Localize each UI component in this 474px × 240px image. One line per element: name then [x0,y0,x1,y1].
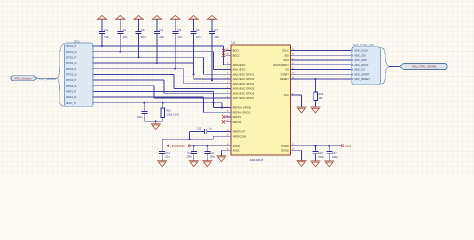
wire CS to harness [296,69,352,71]
svg-text:RTD1_P: RTD1_P [66,44,76,48]
harness entry REF1_P [66,90,94,94]
pin RESET right [280,77,296,81]
svg-text:10n: 10n [104,35,109,39]
harness entry RTD3_N [66,73,94,77]
power symbol above C6 [188,16,198,32]
pin SCLK right [282,49,296,53]
svg-text:9: 9 [227,106,228,108]
wire RTD1_N to AIN1 [94,52,231,70]
pin CLK right [284,93,296,97]
pin REFIN+ GPIO0 left [226,106,252,110]
U1 part number AD4130-8 [250,158,264,162]
svg-text:18: 18 [292,77,294,79]
harness entry RTD4_N [66,84,94,88]
capacitor C17 100p [326,146,338,161]
harness entry RTD1_N [66,50,94,54]
harness entry RTD1_P [66,44,94,48]
junction on RTD row 5 [174,68,176,70]
capacitor C7 10n [209,28,219,80]
harness entry ADX_SCLK [351,49,368,53]
svg-text:BDC2: BDC2 [233,53,241,57]
svg-text:BDC1: BDC1 [233,49,241,53]
wire SCLK to harness [296,50,352,52]
wire SDI to harness [296,54,352,56]
capacitor C16 100n [313,146,325,161]
ground CLK [297,107,307,113]
svg-text:16: 16 [226,54,228,56]
harness brace left [58,44,65,107]
junction on RTD row 4 [156,62,158,64]
pin CS right [285,68,296,72]
svg-text:C4: C4 [159,28,163,32]
svg-text:ADX_RESET: ADX_RESET [354,77,370,81]
resistor R16 1k [314,79,324,107]
port RTD_Sensors [11,76,37,81]
harness entry RTD4_P [66,78,94,82]
svg-text:C16: C16 [318,152,323,155]
svg-text:AIN5 IEXC GPIO5: AIN5 IEXC GPIO5 [233,87,255,91]
svg-text:RTD2_N: RTD2_N [66,61,76,65]
harness entry RTD2_P [66,56,94,60]
pin AIN3 IEXC GPIO3 left [226,77,255,81]
svg-text:ADX_START: ADX_START [354,72,370,76]
svg-text:C3: C3 [141,28,145,32]
no-connect BDC1 [222,49,225,52]
pin AIN7 IEXC GPIO7 left [226,96,255,100]
capacitor C15 1u [190,127,231,134]
svg-text:+3V3: +3V3 [344,144,351,148]
svg-text:ADX_SDI: ADX_SDI [354,53,366,57]
wire RTD2_P to AIN2 [94,57,231,74]
capacitor C2 10n [117,28,127,52]
svg-text:C15: C15 [197,127,202,130]
wire REF1_P to REFIN+ [94,91,231,107]
ground DGND [297,161,307,167]
svg-text:REFIN+ GPIO0: REFIN+ GPIO0 [233,106,252,110]
svg-text:AVSS: AVSS [233,148,240,152]
wire DVDD rail [291,145,342,147]
pin DGND right [281,148,296,152]
svg-text:2.00k 0.1%: 2.00k 0.1% [166,114,179,117]
svg-text:100n: 100n [186,156,192,159]
power port +3V3 [341,144,351,148]
svg-text:C11: C11 [210,152,215,155]
capacitor C12 100n [186,146,196,161]
svg-text:REF1_P: REF1_P [66,90,76,94]
svg-text:RTD3_N: RTD3_N [66,73,76,77]
net label RTD_Sensors [39,77,56,81]
junction on RTD row 3 [138,56,140,58]
svg-text:RTD4_N: RTD4_N [66,84,76,88]
ground R16 [311,107,321,113]
pin BDC1 left [226,49,241,53]
harness title ADX_CTRL_SIG [353,43,374,47]
U1 designator [232,40,236,44]
harness title RTD [74,39,80,43]
wire RTD1_P to AIN0 [94,46,231,65]
pin VREFCOM left [226,134,246,138]
svg-text:100n: 100n [210,156,216,159]
no-connect REFN1 [222,120,225,123]
junction on RTD row 6 [193,73,195,75]
ground C12 [189,161,199,167]
svg-text:REF1_N: REF1_N [66,95,76,99]
harness entry RTD3_P [66,67,94,71]
wire RTD4_P to AIN6 [94,80,231,93]
svg-text:REFN1: REFN1 [233,120,242,124]
pin REFN1 left [226,120,242,124]
svg-text:SDI: SDI [284,53,289,57]
svg-text:11: 11 [227,115,229,117]
svg-text:4: 4 [227,77,228,79]
pin DVDD right [281,144,296,148]
wire port to harness [37,77,58,79]
wire CLK [291,95,302,107]
port ADx_CTRL_SIGNAL [400,63,448,69]
svg-text:START: START [280,72,289,76]
svg-text:AIN6 IEXC GPIO6: AIN6 IEXC GPIO6 [233,91,255,95]
svg-text:DVDD: DVDD [281,144,289,148]
harness entry ADX_START [351,72,370,76]
svg-text:C12: C12 [187,152,192,155]
svg-text:10n: 10n [178,35,183,39]
svg-text:C1: C1 [104,28,108,32]
svg-text:23: 23 [292,54,294,56]
pin START right [280,72,296,76]
ground C11 [202,161,212,167]
svg-text:100n: 100n [318,156,324,159]
svg-text:CS: CS [285,68,289,72]
harness entry ADX_SDO [351,58,367,62]
svg-text:ADX_DOUT: ADX_DOUT [354,63,369,67]
svg-text:C17: C17 [332,152,337,155]
svg-text:RTD3_P: RTD3_P [66,67,76,71]
svg-text:1: 1 [227,63,228,65]
pin AIN4 IEXC GPIO4 left [226,82,255,86]
power symbol above C3 [133,16,143,32]
svg-text:15: 15 [226,49,228,51]
svg-text:SDO: SDO [283,58,289,62]
power symbol above C1 [97,16,107,32]
svg-text:C6: C6 [196,28,200,32]
capacitor C11 100n [204,146,215,161]
pin AVSS left [226,148,240,152]
svg-text:6: 6 [227,87,228,89]
pin AIN1 IEXC left [226,68,246,72]
pin AVDD left [226,144,240,148]
pin AIN2 IEXC GPIO2 left [226,72,255,76]
svg-text:AIN2 IEXC GPIO2: AIN2 IEXC GPIO2 [233,72,255,76]
harness entry RTD2_N [66,61,94,65]
svg-text:RTD_Sensors: RTD_Sensors [39,77,56,81]
svg-text:U1: U1 [232,40,236,44]
svg-text:R16: R16 [318,93,323,96]
svg-text:24: 24 [292,49,294,51]
svg-text:100p: 100p [332,156,338,159]
svg-text:+3V3AVDD: +3V3AVDD [170,144,185,148]
ground ref [151,124,161,130]
capacitor C8 100n [137,102,148,122]
resistor R13 2.00k 0.1% [161,102,180,122]
svg-text:C5: C5 [178,28,182,32]
pin AIN0 IEXC left [226,63,246,67]
svg-text:DOUT/DRDY: DOUT/DRDY [273,63,289,67]
pin REFP1 left [226,115,242,119]
svg-text:10: 10 [226,111,228,113]
no-connect BDC2 [222,54,225,57]
svg-text:5: 5 [227,82,228,84]
junction on RTD row 2 [119,51,121,53]
power symbol above C7 [207,16,217,32]
wire VREFCOM [162,136,231,139]
svg-text:C7: C7 [214,28,218,32]
svg-text:10u: 10u [165,156,170,159]
svg-text:10n: 10n [141,35,146,39]
power port +3V3AVDD [166,144,190,148]
capacitor C3 10n [136,28,146,57]
svg-text:ADX_SDO: ADX_SDO [354,58,367,62]
svg-text:ADX_SCLK: ADX_SCLK [354,49,368,53]
harness entry ADX_SDI [351,53,366,57]
pin AIN5 IEXC GPIO5 left [226,87,255,91]
svg-text:AIN1 IEXC: AIN1 IEXC [233,68,246,72]
svg-text:AD4130-8: AD4130-8 [250,158,264,162]
ground C16 [311,161,321,167]
svg-text:ADX_CTRL_SIG: ADX_CTRL_SIG [353,43,374,47]
svg-text:AIN3 IEXC GPIO3: AIN3 IEXC GPIO3 [233,77,255,81]
pin SDO right [283,58,296,62]
svg-text:ADx_CTRL_SIGNAL: ADx_CTRL_SIGNAL [412,65,437,69]
svg-text:RTD_Sensors: RTD_Sensors [15,76,32,80]
power symbol above C2 [115,16,125,32]
svg-text:19: 19 [292,73,294,75]
svg-text:8: 8 [227,96,228,98]
svg-text:CLK: CLK [284,93,289,97]
wire VREFOUT drop [189,132,191,141]
pin VREFOUT left [226,130,246,134]
svg-text:10n: 10n [159,35,164,39]
svg-text:R13: R13 [166,110,171,113]
wire IEXC_C ref node [94,103,223,109]
pin AIN6 IEXC GPIO6 left [226,91,255,95]
svg-text:2: 2 [227,68,228,70]
pin SDI right [284,53,296,57]
no-connect REFP1 [222,115,225,118]
svg-text:RTD2_P: RTD2_P [66,56,76,60]
svg-text:VREFOUT: VREFOUT [233,130,246,134]
harness entry REF1_N [66,95,94,99]
svg-text:12: 12 [226,120,228,122]
pin DOUT/DRDY right [273,63,296,67]
wire harness to port [389,65,400,67]
svg-text:10n: 10n [196,35,201,39]
wire SDO to harness [296,59,352,61]
capacitor C1 10n [99,28,109,46]
wire AVDD rail [190,145,231,147]
svg-text:REFIN- GPIO1: REFIN- GPIO1 [233,110,251,114]
junction on RTD row 1 [101,45,103,47]
wire RESET to harness [296,78,352,80]
wire REF1_N to REFIN- [94,97,231,112]
ground AVSS [216,156,226,162]
wire DGND [291,150,302,160]
svg-text:22: 22 [292,58,294,60]
svg-text:C2: C2 [123,28,127,32]
wire RTD3_P to AIN4 [94,69,231,84]
svg-text:3: 3 [227,73,228,75]
capacitor C6 10n [191,28,201,74]
svg-text:IEXC_C: IEXC_C [66,101,76,105]
svg-text:7: 7 [227,92,228,94]
svg-text:AIN4 IEXC GPIO4: AIN4 IEXC GPIO4 [233,82,255,86]
op-amp U1 AD4130-8 body [231,45,291,155]
ground C17 [324,161,334,167]
svg-text:20: 20 [292,68,294,70]
pin BDC2 left [226,53,241,57]
svg-text:100n: 100n [137,116,143,119]
svg-text:RTD1_N: RTD1_N [66,50,76,54]
wire START to harness [296,73,352,75]
svg-text:10n: 10n [214,35,219,39]
harness entry ADX_RESET [351,77,370,81]
ground C14 [157,161,167,167]
junction RESET pull resistor [315,78,317,80]
harness connector ADX_CTRL_SIG body [352,47,381,85]
harness brace right [380,47,389,84]
svg-text:21: 21 [292,63,294,65]
capacitor C4 10n [154,28,164,63]
svg-text:C14: C14 [165,152,170,155]
wire ref rail [144,120,162,124]
wire AVSS [221,150,231,156]
svg-text:DGND: DGND [281,148,289,152]
svg-text:AIN0 IEXC: AIN0 IEXC [233,63,246,67]
svg-text:REFP1: REFP1 [233,115,242,119]
svg-text:RTD: RTD [74,39,80,43]
capacitor C5 10n [172,28,182,69]
junction on RTD row 7 [211,79,213,81]
svg-text:RESET: RESET [280,77,289,81]
svg-text:AIN7 IEXC GPIO7: AIN7 IEXC GPIO7 [233,96,255,100]
harness connector RTD body [65,43,94,107]
svg-text:SCLK: SCLK [282,49,289,53]
svg-text:AVDD: AVDD [233,144,240,148]
wire DOUT/DRDY to harness [296,64,352,66]
svg-text:ADX_CS: ADX_CS [354,68,365,72]
harness entry IEXC_C [66,101,94,105]
harness entry ADX_DOUT [351,63,369,67]
svg-text:VREFCOM: VREFCOM [233,134,246,138]
wire RTD4_N to AIN7 [94,86,231,98]
power symbol above C5 [170,16,180,32]
wire RTD3_N to AIN5 [94,74,231,88]
capacitor C14 10u [159,139,170,160]
harness entry ADX_CS [351,68,365,72]
svg-text:10n: 10n [123,35,128,39]
pin REFIN- GPIO1 left [226,110,251,114]
svg-text:RTD4_P: RTD4_P [66,78,76,82]
power symbol above C4 [152,16,162,32]
wire RTD2_N to AIN3 [94,63,231,79]
